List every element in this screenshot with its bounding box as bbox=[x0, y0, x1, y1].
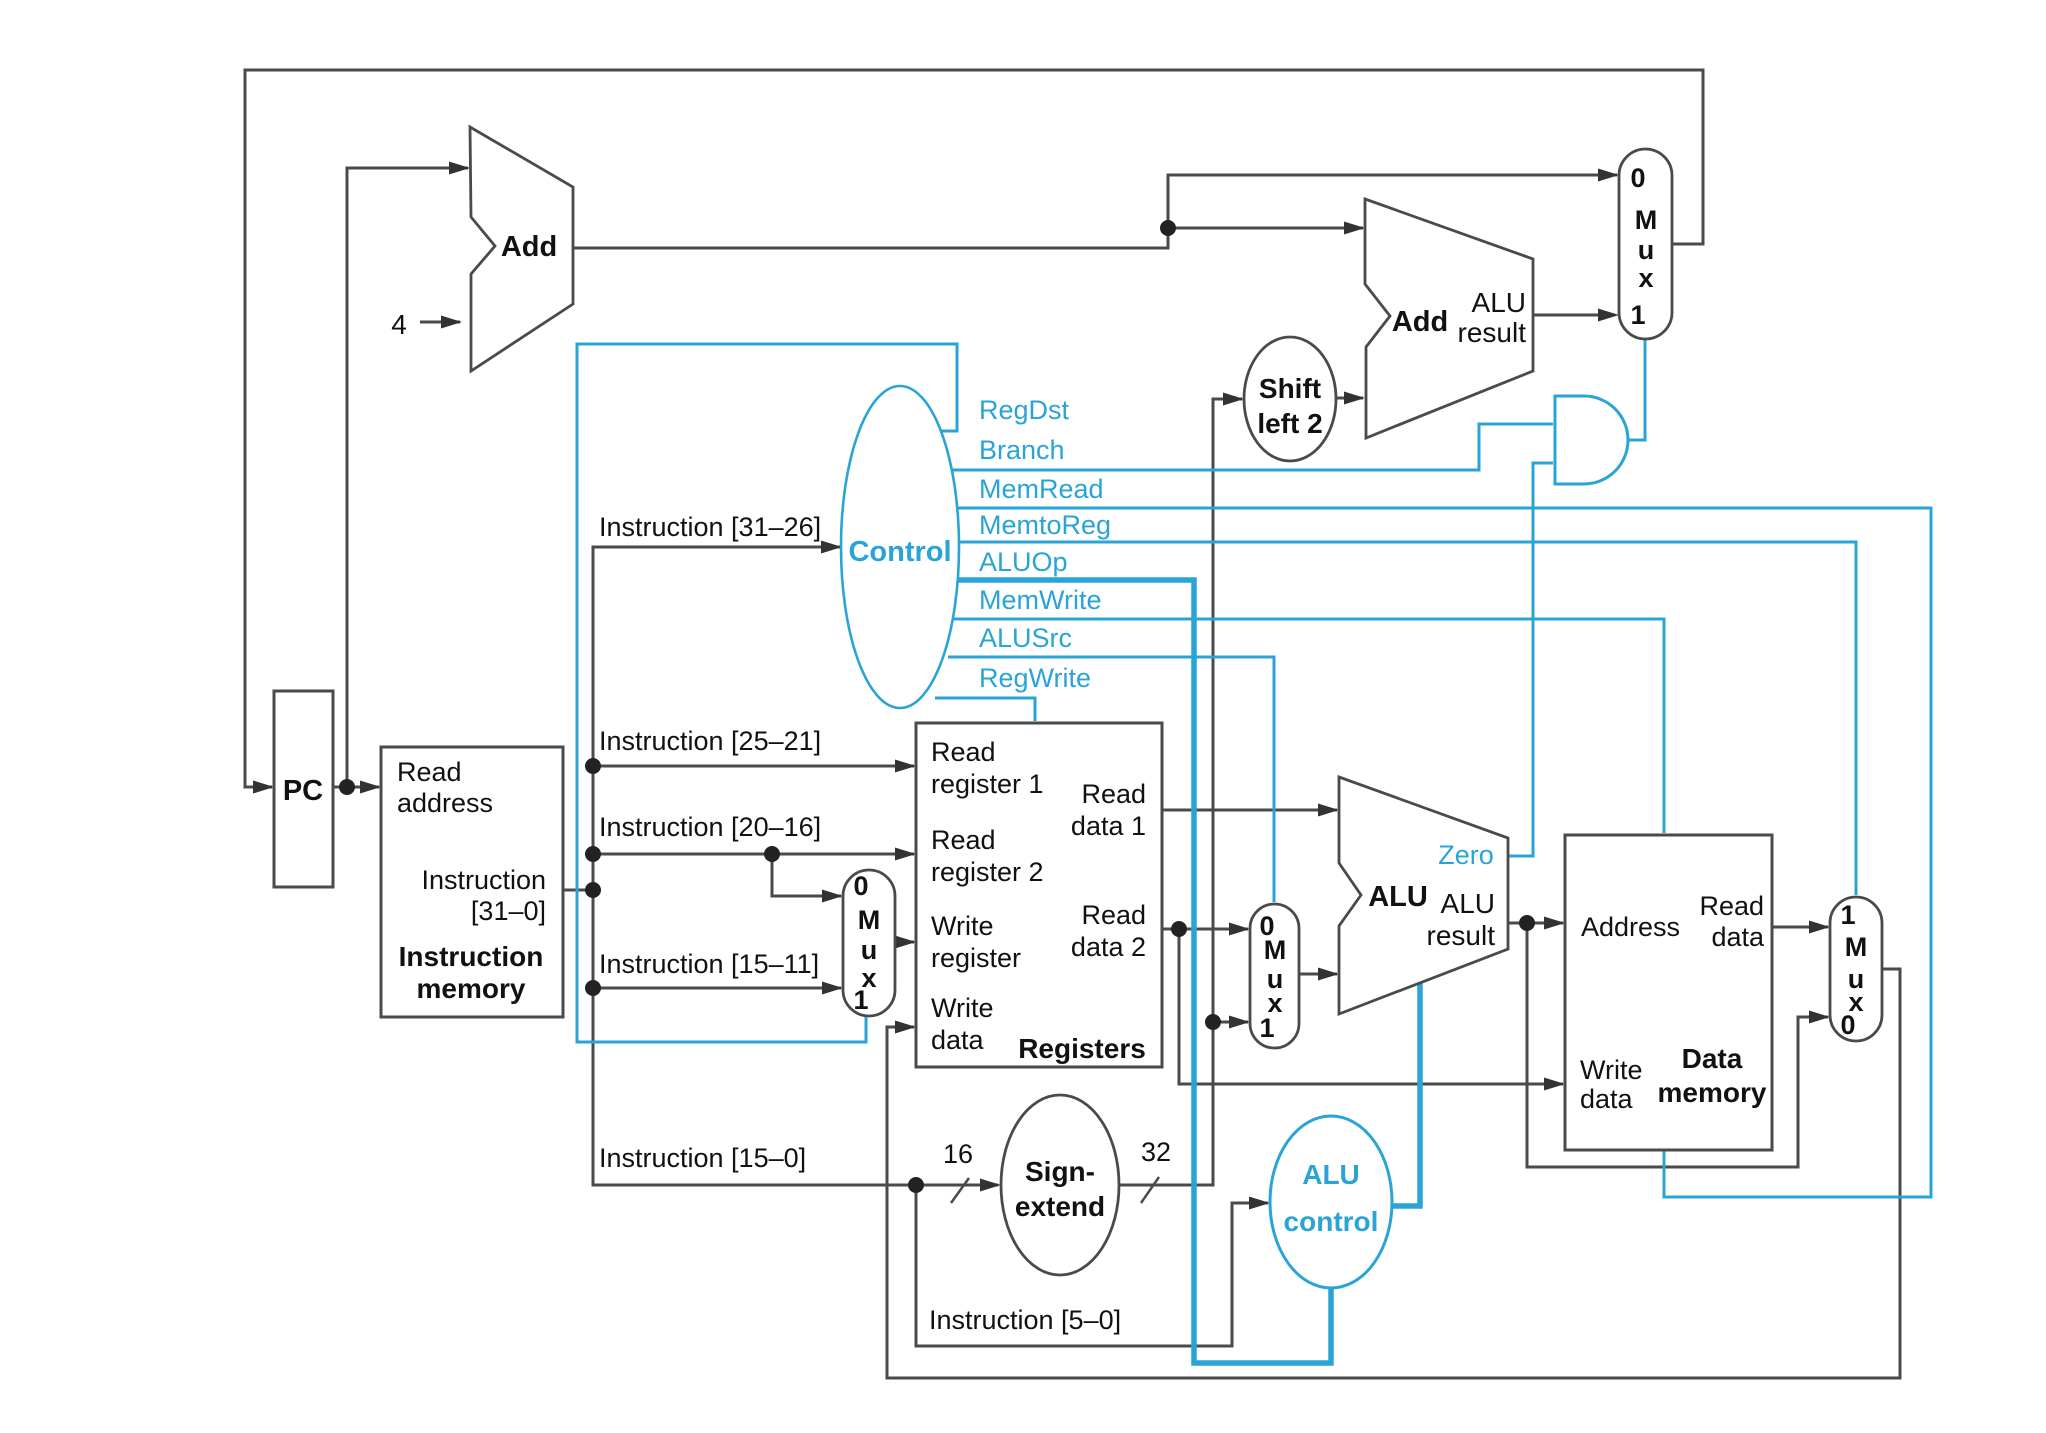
svg-text:Instruction [25–21]: Instruction [25–21] bbox=[599, 726, 821, 756]
svg-text:u: u bbox=[861, 935, 878, 965]
svg-text:address: address bbox=[397, 788, 493, 818]
svg-text:MemWrite: MemWrite bbox=[979, 585, 1102, 615]
svg-text:Read: Read bbox=[1699, 891, 1764, 921]
svg-text:M: M bbox=[1635, 205, 1658, 235]
svg-text:PC: PC bbox=[283, 775, 323, 807]
svg-text:Instruction: Instruction bbox=[399, 941, 544, 972]
svg-text:ALUOp: ALUOp bbox=[979, 547, 1068, 577]
svg-text:register 2: register 2 bbox=[931, 857, 1044, 887]
svg-text:Write: Write bbox=[931, 911, 994, 941]
svg-text:Read: Read bbox=[1081, 900, 1146, 930]
svg-text:MemtoReg: MemtoReg bbox=[979, 510, 1111, 540]
svg-text:1: 1 bbox=[1840, 900, 1855, 930]
svg-text:ALU: ALU bbox=[1302, 1159, 1360, 1190]
svg-text:Sign-: Sign- bbox=[1025, 1156, 1095, 1187]
svg-text:ALU: ALU bbox=[1472, 287, 1526, 318]
svg-text:u: u bbox=[1638, 235, 1655, 265]
svg-text:Zero: Zero bbox=[1438, 840, 1494, 870]
svg-text:Instruction [15–0]: Instruction [15–0] bbox=[599, 1143, 806, 1173]
svg-text:Instruction: Instruction bbox=[421, 865, 546, 895]
svg-text:x: x bbox=[1638, 263, 1653, 293]
svg-text:1: 1 bbox=[1259, 1013, 1274, 1043]
svg-text:register: register bbox=[931, 943, 1021, 973]
svg-text:extend: extend bbox=[1015, 1191, 1105, 1222]
svg-text:MemRead: MemRead bbox=[979, 474, 1104, 504]
svg-text:Read: Read bbox=[1081, 779, 1146, 809]
svg-text:Data: Data bbox=[1682, 1043, 1743, 1074]
svg-text:Shift: Shift bbox=[1259, 373, 1321, 404]
svg-text:M: M bbox=[858, 905, 881, 935]
svg-text:1: 1 bbox=[1630, 300, 1645, 330]
svg-text:M: M bbox=[1845, 932, 1868, 962]
svg-text:0: 0 bbox=[1630, 163, 1645, 193]
svg-text:Branch: Branch bbox=[979, 435, 1065, 465]
svg-text:4: 4 bbox=[391, 309, 407, 340]
svg-text:data: data bbox=[1580, 1084, 1634, 1114]
svg-text:data: data bbox=[1711, 922, 1765, 952]
svg-text:result: result bbox=[1427, 920, 1496, 951]
svg-text:result: result bbox=[1458, 317, 1527, 348]
svg-text:Instruction [5–0]: Instruction [5–0] bbox=[929, 1305, 1121, 1335]
svg-text:data 1: data 1 bbox=[1071, 811, 1146, 841]
svg-text:[31–0]: [31–0] bbox=[471, 896, 546, 926]
svg-text:Instruction [31–26]: Instruction [31–26] bbox=[599, 512, 821, 542]
svg-text:Address: Address bbox=[1581, 912, 1680, 942]
svg-text:Control: Control bbox=[848, 536, 951, 568]
svg-text:0: 0 bbox=[853, 871, 868, 901]
svg-text:left 2: left 2 bbox=[1257, 408, 1322, 439]
svg-text:Read: Read bbox=[931, 825, 996, 855]
svg-text:memory: memory bbox=[1658, 1077, 1767, 1108]
svg-text:Add: Add bbox=[501, 231, 557, 263]
svg-text:M: M bbox=[1264, 935, 1287, 965]
svg-text:register 1: register 1 bbox=[931, 769, 1044, 799]
svg-text:32: 32 bbox=[1141, 1137, 1171, 1167]
svg-text:Write: Write bbox=[1580, 1055, 1643, 1085]
svg-text:ALUSrc: ALUSrc bbox=[979, 623, 1072, 653]
svg-text:data 2: data 2 bbox=[1071, 932, 1146, 962]
svg-text:Instruction [15–11]: Instruction [15–11] bbox=[599, 949, 819, 979]
svg-text:Read: Read bbox=[931, 737, 996, 767]
svg-text:Add: Add bbox=[1392, 306, 1448, 338]
svg-text:Read: Read bbox=[397, 757, 462, 787]
svg-text:Instruction [20–16]: Instruction [20–16] bbox=[599, 812, 821, 842]
svg-text:Write: Write bbox=[931, 993, 994, 1023]
svg-text:RegDst: RegDst bbox=[979, 395, 1070, 425]
svg-text:control: control bbox=[1284, 1206, 1379, 1237]
svg-text:RegWrite: RegWrite bbox=[979, 663, 1091, 693]
svg-text:memory: memory bbox=[417, 973, 526, 1004]
svg-text:ALU: ALU bbox=[1441, 888, 1495, 919]
svg-text:16: 16 bbox=[943, 1139, 973, 1169]
svg-text:1: 1 bbox=[853, 985, 868, 1015]
svg-text:0: 0 bbox=[1840, 1010, 1855, 1040]
svg-text:ALU: ALU bbox=[1368, 881, 1428, 913]
svg-text:Registers: Registers bbox=[1018, 1033, 1146, 1064]
svg-text:data: data bbox=[931, 1025, 985, 1055]
